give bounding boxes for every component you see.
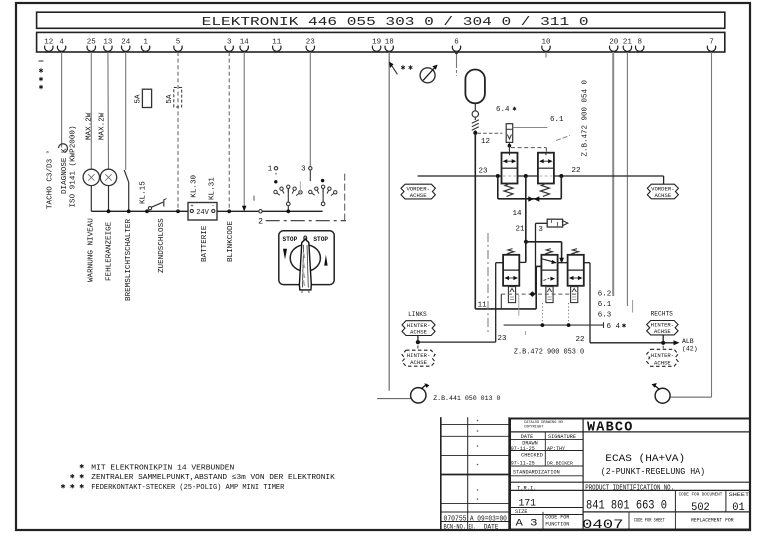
svg-text:Z.B.472 900 053 0: Z.B.472 900 053 0: [514, 348, 584, 356]
svg-text:HINTER-: HINTER-: [651, 352, 675, 359]
svg-text:ACHSE: ACHSE: [654, 359, 671, 366]
svg-text:3: 3: [538, 226, 543, 234]
svg-text:97-11-25: 97-11-25: [511, 446, 535, 452]
svg-text:5: 5: [176, 39, 181, 47]
svg-text:6.4: 6.4: [496, 106, 510, 114]
svg-text:STOP: STOP: [313, 236, 328, 243]
svg-text:Z.B.441 050 013 0: Z.B.441 050 013 0: [433, 395, 500, 402]
svg-text:WARNUNG NIVEAU: WARNUNG NIVEAU: [88, 218, 96, 282]
svg-text:MAX.2W: MAX.2W: [99, 112, 107, 140]
svg-text:8: 8: [637, 39, 642, 47]
svg-text:STOP: STOP: [283, 236, 298, 243]
svg-text:1: 1: [268, 165, 273, 173]
svg-text:FEHLERANZEIGE: FEHLERANZEIGE: [106, 221, 114, 281]
svg-text:5A: 5A: [166, 94, 174, 104]
svg-text:WABCO: WABCO: [587, 421, 634, 436]
svg-text:BATTERIE: BATTERIE: [201, 225, 209, 262]
svg-text:ALB: ALB: [682, 338, 694, 345]
svg-text:KL.15: KL.15: [140, 181, 148, 204]
svg-text:070755: 070755: [444, 515, 467, 523]
svg-text:ECAS (HA+VA): ECAS (HA+VA): [605, 453, 685, 465]
svg-text:13: 13: [103, 39, 113, 47]
svg-text:-: -: [211, 203, 215, 210]
svg-text:DATE: DATE: [521, 434, 533, 440]
svg-text:3: 3: [301, 165, 306, 173]
svg-text:18: 18: [385, 39, 394, 47]
svg-text:AP:THY: AP:THY: [547, 446, 565, 452]
svg-text:CODE FOR DOCUMENT: CODE FOR DOCUMENT: [679, 492, 723, 498]
svg-text:CODE FOR: CODE FOR: [545, 515, 569, 521]
svg-text:ZUENDSCHLOSS: ZUENDSCHLOSS: [158, 218, 166, 273]
svg-text:EX.: EX.: [469, 523, 476, 530]
svg-text:12: 12: [481, 138, 490, 146]
svg-text:ACHSE: ACHSE: [410, 359, 427, 366]
svg-text:MAX.2W: MAX.2W: [86, 112, 94, 140]
svg-text:FUNCTION: FUNCTION: [545, 522, 569, 528]
svg-text:ACHSE: ACHSE: [654, 192, 671, 199]
svg-text:A 09=03=00: A 09=03=00: [470, 515, 507, 523]
svg-text:T.R.I.: T.R.I.: [517, 485, 536, 491]
svg-text:4: 4: [59, 39, 64, 47]
svg-text:10: 10: [541, 39, 551, 47]
svg-text:A 3: A 3: [516, 518, 538, 530]
svg-text:(2-PUNKT-REGELUNG HA): (2-PUNKT-REGELUNG HA): [601, 467, 705, 477]
svg-text:DIAGNOSE K: DIAGNOSE K: [61, 148, 69, 194]
svg-text:7: 7: [709, 39, 714, 47]
svg-text:COPYRIGHT: COPYRIGHT: [524, 425, 544, 429]
svg-text:21: 21: [623, 39, 633, 47]
svg-text:6 4: 6 4: [607, 323, 621, 331]
svg-text:25: 25: [87, 39, 97, 47]
svg-text:ZENTRALER SAMMELPUNKT,ABSTAND: ZENTRALER SAMMELPUNKT,ABSTAND ≤3m VON DE…: [91, 474, 335, 482]
svg-text:6.2: 6.2: [598, 291, 612, 299]
svg-text:Z.B.472 900 054 0: Z.B.472 900 054 0: [582, 79, 590, 156]
svg-text:11: 11: [478, 302, 488, 310]
svg-text:11: 11: [272, 39, 282, 47]
svg-text:2: 2: [258, 218, 263, 227]
svg-text:12: 12: [44, 39, 53, 47]
svg-text:PRODUCT IDENTIFICATION NO.: PRODUCT IDENTIFICATION NO.: [585, 485, 674, 493]
svg-text:MIT ELEKTRONIKPIN 14 VERBUNDEN: MIT ELEKTRONIKPIN 14 VERBUNDEN: [91, 464, 234, 472]
svg-text:REPLACEMENT FOR: REPLACEMENT FOR: [691, 518, 734, 524]
svg-text:6.3: 6.3: [598, 312, 612, 320]
svg-text:+: +: [190, 204, 193, 210]
svg-text:97-11-25: 97-11-25: [511, 461, 535, 467]
svg-text:DATE: DATE: [484, 523, 499, 530]
svg-text:19: 19: [372, 39, 381, 47]
svg-text:14: 14: [240, 39, 250, 47]
svg-text:0407: 0407: [582, 518, 624, 532]
svg-text:DR.BECKER: DR.BECKER: [547, 461, 573, 467]
svg-text:TACHO C3/D3 °: TACHO C3/D3 °: [46, 150, 55, 209]
svg-text:6.1: 6.1: [550, 116, 564, 124]
svg-text:6.1: 6.1: [598, 301, 612, 309]
svg-text:21: 21: [516, 226, 526, 234]
svg-text:23: 23: [498, 335, 508, 343]
svg-text:SIZE: SIZE: [515, 509, 527, 515]
svg-text:01: 01: [732, 502, 745, 514]
svg-text:(42): (42): [682, 346, 698, 353]
svg-text:HINTER-: HINTER-: [407, 352, 431, 359]
svg-text:CODE FOR SHEET: CODE FOR SHEET: [634, 518, 665, 524]
svg-text:KL.30: KL.30: [191, 174, 199, 197]
svg-text:20: 20: [609, 39, 619, 47]
svg-text:24: 24: [121, 39, 131, 47]
svg-text:BREMSLICHTSCHALTER: BREMSLICHTSCHALTER: [125, 219, 133, 301]
svg-text:ACHSE: ACHSE: [654, 328, 671, 335]
svg-text:841 801 663 0: 841 801 663 0: [586, 498, 667, 513]
svg-text:RECHTS: RECHTS: [651, 310, 674, 317]
svg-text:171: 171: [519, 499, 537, 510]
svg-text:LINKS: LINKS: [408, 311, 427, 318]
svg-text:ACHSE: ACHSE: [410, 329, 427, 336]
svg-text:KL.31: KL.31: [209, 177, 217, 200]
svg-text:22: 22: [572, 167, 581, 175]
svg-text:14: 14: [513, 210, 523, 218]
svg-text:6: 6: [454, 39, 459, 47]
svg-text:CHECKED: CHECKED: [521, 453, 543, 459]
svg-text:BLINKCODE: BLINKCODE: [227, 221, 235, 262]
svg-text:22: 22: [575, 336, 584, 344]
svg-text:5A: 5A: [135, 94, 143, 104]
svg-text:ISO 9141 (KWP2000): ISO 9141 (KWP2000): [70, 125, 78, 207]
svg-text:CATALOG DRAWING NO: CATALOG DRAWING NO: [524, 421, 563, 425]
svg-text:SIGNATURE: SIGNATURE: [548, 434, 576, 440]
svg-text:24V: 24V: [196, 209, 209, 217]
svg-text:FEDERKONTAKT-STECKER (25-POLIG: FEDERKONTAKT-STECKER (25-POLIG) AMP MINI…: [91, 484, 284, 492]
svg-text:SHEET: SHEET: [729, 491, 750, 498]
svg-text:502: 502: [691, 502, 710, 514]
svg-text:23: 23: [478, 168, 488, 176]
svg-text:3: 3: [227, 39, 232, 47]
svg-text:BCN-NO.: BCN-NO.: [444, 523, 467, 530]
svg-text:1: 1: [143, 39, 148, 47]
svg-text:ACHSE: ACHSE: [410, 192, 427, 199]
svg-text:STANDARDIZATION: STANDARDIZATION: [513, 469, 560, 475]
svg-text:23: 23: [306, 39, 316, 47]
svg-text:ELEKTRONIK 446 055 303 0 / 30: ELEKTRONIK 446 055 303 0 / 304 0 / 311 0: [202, 15, 589, 29]
